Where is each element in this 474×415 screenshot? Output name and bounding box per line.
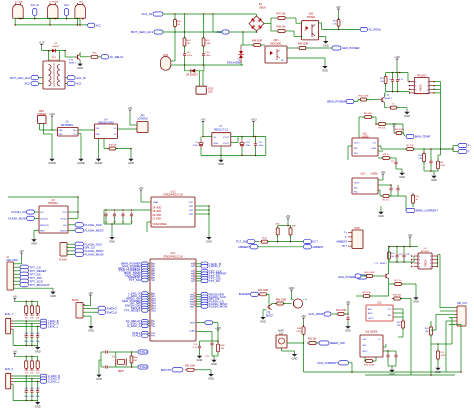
- svg-text:OUT2: OUT2: [368, 318, 374, 320]
- svg-text:QK4: QK4: [274, 39, 279, 42]
- svg-text:PB9: PB9: [191, 281, 195, 283]
- svg-text:SWCLK: SWCLK: [107, 310, 118, 314]
- svg-text:ENC_1: ENC_1: [5, 313, 14, 316]
- svg-text:VSSA/VREF-: VSSA/VREF-: [153, 223, 168, 226]
- svg-text:TFT_RESET: TFT_RESET: [124, 308, 141, 312]
- svg-text:IN2-: IN2-: [354, 188, 358, 190]
- svg-text:VCC: VCC: [188, 202, 193, 204]
- svg-text:R16 100R: R16 100R: [365, 272, 375, 274]
- svg-text:R45 0R: R45 0R: [109, 144, 117, 146]
- svg-text:FLASH_MOSI: FLASH_MOSI: [8, 217, 26, 221]
- svg-text:T-: T-: [468, 151, 470, 154]
- svg-text:4.7u: 4.7u: [399, 79, 403, 81]
- svg-text:R64 470R: R64 470R: [394, 129, 404, 131]
- svg-text:OUT1: OUT1: [362, 351, 368, 353]
- svg-text:AIR_OUT: AIR_OUT: [457, 302, 468, 305]
- svg-text:VCC: VCC: [63, 212, 68, 214]
- svg-text:1M: 1M: [187, 43, 190, 45]
- svg-text:FLASH_SCK: FLASH_SCK: [85, 223, 103, 227]
- svg-text:BU817: BU817: [385, 98, 392, 100]
- svg-text:10k: 10k: [333, 24, 336, 26]
- svg-text:IN1+: IN1+: [354, 153, 359, 155]
- svg-text:BOT_GEN_AC1: BOT_GEN_AC1: [131, 30, 153, 34]
- svg-text:10k: 10k: [30, 372, 33, 374]
- svg-text:FLASH_MISO: FLASH_MISO: [85, 228, 105, 232]
- svg-text:GND: GND: [371, 148, 376, 150]
- svg-text:BU817: BU817: [69, 62, 76, 64]
- svg-text:TFT_BKLIGHT: TFT_BKLIGHT: [30, 283, 50, 287]
- svg-text:IN1-: IN1-: [354, 148, 358, 150]
- svg-text:1M: 1M: [177, 24, 180, 26]
- svg-text:10k: 10k: [391, 256, 394, 258]
- svg-text:AMBIENT: AMBIENT: [312, 246, 324, 249]
- svg-text:10R: 10R: [397, 325, 401, 327]
- svg-text:1u: 1u: [389, 79, 391, 81]
- svg-text:R54 100R: R54 100R: [276, 299, 287, 301]
- svg-text:R6 100k: R6 100k: [364, 113, 373, 115]
- svg-text:100R: 100R: [441, 355, 446, 357]
- svg-text:REED_SW: REED_SW: [330, 341, 345, 345]
- svg-text:R7 10k: R7 10k: [407, 145, 415, 147]
- svg-text:FLASH_MOSI: FLASH_MOSI: [209, 304, 228, 308]
- svg-text:10R: 10R: [425, 331, 429, 333]
- svg-text:DI(IO0): DI(IO0): [60, 230, 67, 232]
- svg-text:VIN: VIN: [96, 128, 100, 130]
- svg-text:VO: VO: [114, 128, 117, 130]
- svg-text:PROG: PROG: [72, 300, 79, 302]
- svg-text:100R: 100R: [440, 165, 445, 167]
- svg-text:LM358: LM358: [370, 174, 378, 176]
- svg-text:PB15: PB15: [190, 306, 195, 308]
- svg-text:10k: 10k: [25, 317, 28, 319]
- svg-text:PB2: PB2: [152, 326, 156, 328]
- svg-text:BOOT0: BOOT0: [161, 368, 172, 372]
- svg-text:PH1: PH1: [152, 336, 156, 338]
- svg-text:AC1: AC1: [96, 24, 101, 27]
- svg-text:0.47u: 0.47u: [187, 55, 193, 57]
- svg-text:OUT2: OUT2: [354, 183, 360, 185]
- svg-text:AMBIENT: AMBIENT: [336, 241, 347, 244]
- svg-text:100n: 100n: [206, 55, 212, 57]
- svg-text:R47 10k: R47 10k: [277, 13, 287, 16]
- svg-text:MP1584EN: MP1584EN: [61, 125, 73, 127]
- svg-text:PH0: PH0: [152, 333, 156, 335]
- svg-text:EVA_POWER: EVA_POWER: [338, 275, 356, 279]
- svg-text:VO-: VO-: [73, 134, 77, 136]
- svg-text:1M: 1M: [134, 360, 137, 362]
- svg-text:GND: GND: [214, 143, 219, 145]
- svg-text:PB4: PB4: [191, 266, 195, 268]
- svg-text:U8.1: U8.1: [363, 133, 369, 135]
- svg-text:R48 510R: R48 510R: [252, 41, 263, 43]
- svg-text:10k: 10k: [30, 317, 33, 319]
- svg-text:TPC8107: TPC8107: [417, 76, 427, 78]
- svg-text:IN2+: IN2+: [354, 192, 359, 194]
- svg-text:R55 100R: R55 100R: [359, 95, 369, 97]
- svg-text:BRIN_CURRENT: BRIN_CURRENT: [416, 209, 438, 213]
- svg-text:R9 1k: R9 1k: [383, 154, 390, 156]
- svg-text:G_ENC_A: G_ENC_A: [127, 324, 141, 328]
- svg-text:LOOKING: LOOKING: [137, 119, 148, 121]
- svg-text:24 VDD: 24 VDD: [153, 206, 162, 209]
- svg-text:GND: GND: [96, 134, 101, 136]
- svg-text:R17 1k: R17 1k: [395, 280, 403, 282]
- svg-text:CON: CON: [163, 55, 168, 57]
- svg-text:8MHz: 8MHz: [118, 371, 125, 373]
- svg-text:U3.2: U3.2: [170, 190, 176, 193]
- svg-text:MOC3041: MOC3041: [271, 42, 283, 45]
- svg-text:STM32F401CCU6: STM32F401CCU6: [163, 255, 183, 258]
- svg-text:R13 470R: R13 470R: [336, 310, 347, 312]
- svg-text:R48 10k: R48 10k: [277, 26, 287, 29]
- svg-text:U13 LM358: U13 LM358: [365, 331, 378, 334]
- svg-text:F1 FUSE: F1 FUSE: [49, 2, 59, 4]
- svg-text:U3.1: U3.1: [170, 252, 176, 255]
- svg-text:/WP(IO2): /WP(IO2): [40, 225, 49, 227]
- svg-text:TFT_SDI: TFT_SDI: [129, 278, 141, 282]
- svg-text:10k: 10k: [380, 81, 383, 83]
- svg-text:10R: 10R: [418, 158, 422, 160]
- svg-text:AC1_IN: AC1_IN: [31, 4, 40, 7]
- svg-text:R18 10k: R18 10k: [362, 292, 371, 294]
- svg-text:FLASH_MOSI: FLASH_MOSI: [85, 252, 104, 256]
- svg-text:R49 100R: R49 100R: [298, 44, 309, 46]
- svg-text:DO(IO1): DO(IO1): [40, 218, 48, 220]
- svg-text:EX.T: EX.T: [312, 241, 318, 244]
- svg-text:VIN-: VIN-: [59, 134, 63, 136]
- svg-text:10k: 10k: [36, 317, 39, 319]
- svg-text:ENC_0: ENC_0: [5, 368, 14, 371]
- svg-text:BU817: BU817: [266, 316, 274, 318]
- svg-text:R36 10k: R36 10k: [308, 339, 317, 341]
- svg-text:/CS: /CS: [40, 212, 44, 214]
- svg-text:R42 100k: R42 100k: [185, 366, 196, 368]
- svg-text:BU817: BU817: [380, 263, 387, 265]
- svg-text:GND: GND: [40, 230, 45, 232]
- svg-text:10k: 10k: [25, 372, 28, 374]
- svg-text:NRST: NRST: [190, 323, 196, 325]
- svg-text:TR.T: TR.T: [342, 245, 348, 248]
- svg-text:XTAL2: XTAL2: [132, 334, 141, 338]
- svg-text:R46 100R: R46 100R: [258, 290, 269, 292]
- svg-text:VOUT: VOUT: [223, 137, 230, 139]
- svg-text:QK2: QK2: [309, 14, 314, 16]
- svg-text:R8 10k: R8 10k: [379, 128, 387, 130]
- svg-text:10k: 10k: [36, 372, 39, 374]
- svg-text:R12 1k: R12 1k: [383, 200, 391, 202]
- svg-text:MP2: MP2: [39, 111, 44, 113]
- svg-text:1k: 1k: [416, 199, 418, 201]
- svg-text:JP10: JP10: [208, 89, 214, 91]
- svg-text:CLK: CLK: [63, 225, 68, 227]
- svg-text:I_ENC_L: I_ENC_L: [209, 264, 221, 268]
- svg-text:R22 470R: R22 470R: [364, 365, 374, 367]
- svg-text:BUZZER: BUZZER: [239, 292, 250, 296]
- svg-text:BRIN_POWER: BRIN_POWER: [327, 100, 346, 104]
- svg-text:OUT1: OUT1: [354, 143, 360, 145]
- svg-text:470u: 470u: [246, 145, 252, 147]
- svg-text:VOUT: VOUT: [223, 143, 230, 145]
- svg-text:PMOS: PMOS: [420, 84, 423, 92]
- svg-text:25 VDD: 25 VDD: [153, 210, 162, 213]
- svg-text:/HOLD: /HOLD: [61, 218, 68, 220]
- svg-text:FLASH_CS: FLASH_CS: [12, 210, 27, 214]
- svg-text:YT5: YT5: [266, 313, 271, 315]
- svg-text:100n: 100n: [259, 145, 265, 147]
- svg-text:LED: LED: [208, 92, 213, 94]
- svg-text:T-: T-: [345, 236, 347, 239]
- svg-text:470u: 470u: [193, 145, 199, 147]
- svg-text:27 VDD: 27 VDD: [153, 218, 162, 221]
- svg-text:FLASH: FLASH: [59, 259, 67, 262]
- svg-text:U8.2: U8.2: [361, 174, 367, 176]
- svg-text:U12: U12: [377, 303, 382, 305]
- svg-text:GLN_TEMP: GLN_TEMP: [308, 312, 323, 316]
- svg-text:AC1_IN: AC1_IN: [141, 12, 152, 16]
- svg-text:REG1117-3.3: REG1117-3.3: [214, 129, 228, 131]
- svg-text:GBU8: GBU8: [259, 6, 266, 9]
- svg-text:STM32F401CCU6: STM32F401CCU6: [163, 194, 183, 197]
- svg-text:PS2561: PS2561: [307, 17, 316, 19]
- svg-text:AC1: AC1: [64, 4, 69, 7]
- svg-text:1.8M: 1.8M: [206, 43, 211, 45]
- svg-text:R39 10k: R39 10k: [393, 294, 402, 296]
- svg-text:NC: NC: [281, 60, 285, 62]
- svg-text:PMOS: PMOS: [426, 259, 428, 266]
- svg-text:26 VDD: 26 VDD: [153, 214, 162, 217]
- svg-text:TFT_DC: TFT_DC: [209, 279, 220, 283]
- svg-text:FAN_CURRENT: FAN_CURRENT: [317, 361, 338, 365]
- svg-text:D4 1N4007: D4 1N4007: [186, 75, 198, 77]
- svg-text:1N4007: 1N4007: [52, 46, 60, 48]
- svg-text:SWDIO: SWDIO: [107, 306, 118, 310]
- svg-text:LM358: LM358: [361, 137, 369, 139]
- svg-text:W25Q64: W25Q64: [48, 202, 58, 205]
